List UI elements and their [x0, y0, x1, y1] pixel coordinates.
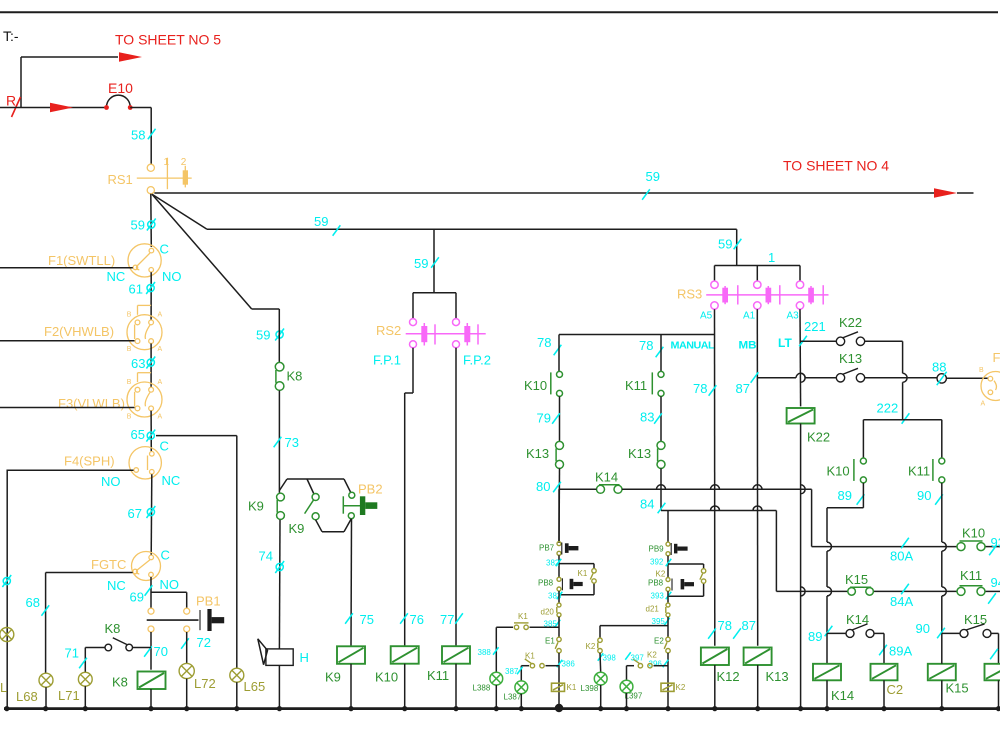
lamp L68 label: [16, 689, 38, 704]
svg-text:73: 73: [285, 435, 299, 450]
svg-text:K13: K13: [526, 446, 549, 461]
wire K14 to bus: [826, 680, 828, 708]
svg-text:F3(VLWLB): F3(VLWLB): [58, 396, 125, 411]
wire K8 branch upper: [278, 309, 280, 362]
svg-text:K22: K22: [839, 315, 862, 330]
svg-text:K1: K1: [525, 652, 535, 661]
RS1 pin 2: [181, 157, 187, 168]
net F.P.1 label: [373, 353, 401, 368]
contact K22 label: [839, 315, 862, 330]
wire K13 contact line: [758, 373, 938, 378]
wire K11 col upper: [660, 335, 662, 372]
svg-text:63: 63: [131, 356, 145, 371]
svg-text:K8: K8: [112, 675, 128, 690]
lamp L71 label: [58, 688, 80, 703]
wire 84A drop: [775, 511, 777, 592]
svg-text:K12: K12: [717, 669, 740, 684]
wire horn to bus: [278, 665, 280, 708]
svg-text:K2: K2: [656, 570, 666, 579]
wire 59 bus to sheet 4: [154, 188, 973, 198]
switch F1: [128, 244, 161, 277]
svg-text:F2(VHWLB): F2(VHWLB): [44, 324, 114, 339]
svg-text:80A: 80A: [890, 549, 913, 564]
wire 386 branch: [521, 666, 559, 681]
wire number 70: [144, 644, 168, 659]
svg-text:H: H: [300, 650, 309, 665]
lamp L65: [230, 668, 244, 682]
wire FGTC NC branch: [46, 573, 133, 674]
svg-text:L72: L72: [194, 676, 216, 691]
relay coil K16: [985, 664, 1000, 681]
wire 78 rail: [559, 334, 715, 336]
svg-text:87: 87: [736, 381, 750, 396]
lamp L397: [620, 680, 633, 693]
wire number 68: [26, 595, 50, 616]
svg-text:K10: K10: [962, 526, 985, 541]
pushbutton PB7: [557, 542, 578, 556]
K22 riser hops: [801, 485, 806, 596]
svg-text:2: 2: [181, 157, 187, 168]
wire number 386: [557, 660, 576, 669]
wire number 392: [650, 558, 671, 567]
contact K13: [556, 441, 564, 468]
wire 88 to F: [946, 377, 988, 379]
svg-text:C: C: [160, 439, 169, 454]
svg-text:69: 69: [130, 590, 144, 605]
wire number 89A: [879, 644, 912, 659]
switch F4: [129, 447, 161, 479]
wire 222 right drop: [941, 420, 943, 458]
pushbutton PB2: [343, 492, 377, 519]
svg-text:L397: L397: [625, 692, 643, 701]
svg-text:RS2: RS2: [376, 323, 401, 338]
wire LT riser: [800, 309, 805, 406]
wire number 398: [598, 653, 617, 662]
svg-text:59: 59: [414, 256, 428, 271]
svg-text:84A: 84A: [890, 594, 913, 609]
svg-text:90: 90: [917, 488, 931, 503]
wire number 94: [988, 575, 1000, 604]
wire 80A feed drop: [811, 489, 813, 546]
svg-text:L: L: [0, 680, 7, 695]
svg-text:94: 94: [991, 575, 1000, 590]
wire PB9 to branch: [667, 556, 669, 578]
contact K2 396 label: [647, 651, 657, 660]
svg-text:PB1: PB1: [196, 594, 221, 609]
wire 59 rail: [207, 228, 737, 230]
svg-text:76: 76: [410, 612, 424, 627]
wire K8aux to L71: [85, 648, 105, 673]
horn H label: [300, 650, 309, 665]
wire PB1 lamp branch: [151, 592, 187, 608]
wire FP1 drop: [405, 348, 413, 646]
svg-text:NO: NO: [160, 577, 180, 592]
wire FP2 drop: [455, 348, 457, 646]
wire PB7 to branch: [558, 555, 560, 577]
net F.P.2 label: [463, 353, 491, 368]
wire K10 coil to bus: [404, 664, 406, 709]
wire 59 drop to RS2: [433, 229, 435, 292]
lamp L72 label: [194, 676, 216, 691]
relay coil K13: [744, 648, 772, 666]
wire L398 to bus: [600, 685, 602, 709]
wire F3 B stub: [0, 407, 135, 409]
svg-text:PB2: PB2: [358, 482, 383, 497]
wire number 61: [129, 282, 156, 297]
pushbutton PB7 label: [539, 544, 555, 553]
pushbutton PB8b label: [648, 579, 664, 588]
wire L68 to bus: [45, 687, 47, 708]
svg-text:L65: L65: [244, 679, 266, 694]
relay coil K9: [337, 646, 365, 664]
contact K1 bypass label: [578, 569, 588, 578]
svg-text:88: 88: [932, 360, 946, 375]
svg-text:K1: K1: [567, 683, 577, 692]
F4 terminal NC label: [162, 473, 181, 488]
contact K8 label: [287, 369, 303, 384]
relay coil K1: [552, 683, 565, 691]
relay coil K13 label: [766, 669, 789, 684]
wire PB8 down: [558, 591, 560, 603]
svg-text:70: 70: [154, 644, 168, 659]
wire K1 bypass: [559, 564, 594, 595]
contact K15 bottom: [960, 624, 991, 638]
wire number 71: [65, 646, 87, 669]
wire 59 drop to RS3: [736, 229, 738, 265]
wire K11 coil to bus: [455, 664, 457, 709]
svg-text:K11: K11: [960, 568, 982, 583]
wire K10 col upper: [558, 335, 560, 372]
wire K11 col lower: [660, 468, 662, 510]
svg-text:MANUAL: MANUAL: [671, 340, 716, 352]
wire K10 col lower: [558, 468, 561, 543]
contact K10 NC right label: [827, 464, 850, 479]
contact K2 bypass label: [656, 570, 666, 579]
svg-text:89: 89: [808, 629, 822, 644]
relay coil K11 label: [427, 668, 449, 683]
relay coil K15: [928, 664, 956, 681]
F2 pin A top: [158, 312, 163, 319]
contact K13 LT label: [839, 351, 862, 366]
switch FGTC: [132, 552, 161, 581]
F2 pin A bottom: [158, 346, 163, 353]
wire L397 to bus: [626, 693, 628, 709]
lamp L68: [39, 673, 53, 687]
switch F2(VHWLB) label: [44, 324, 114, 339]
wire K8 branch to horn: [278, 520, 281, 649]
pushbutton PB8: [557, 577, 583, 591]
wire number 76: [400, 612, 424, 627]
contact d21: [666, 603, 670, 617]
FGTC terminal NO label: [160, 577, 180, 592]
svg-text:71: 71: [65, 646, 79, 661]
svg-text:A: A: [158, 346, 163, 353]
svg-text:K9: K9: [289, 521, 305, 536]
switch RS3 label: [677, 287, 702, 302]
svg-text:388: 388: [478, 648, 492, 657]
svg-text:74: 74: [259, 549, 273, 564]
wire number 84A: [890, 584, 913, 609]
svg-text:L398: L398: [581, 684, 599, 693]
switch F1(SWTLL) label: [48, 253, 115, 268]
F1 terminal NC label: [107, 269, 126, 284]
wire C2 to bus: [883, 680, 885, 708]
wire number 58: [131, 128, 156, 143]
lamp L72: [179, 663, 194, 678]
contact K8 aux label: [105, 621, 121, 636]
F3 pin A bottom: [158, 413, 163, 420]
wire K14 rail: [559, 485, 812, 490]
net MB label: [739, 340, 757, 352]
wire number 59 mid: [642, 169, 660, 200]
wire number 65: [131, 427, 156, 442]
wire number 395: [652, 617, 670, 626]
wire K22 to K13 drop: [903, 341, 908, 419]
contact K11 NC right label: [908, 464, 930, 479]
relay coil K14: [813, 664, 841, 681]
relay coil K2: [661, 683, 674, 691]
wire d20 down: [558, 617, 560, 637]
wire number 388: [478, 647, 499, 657]
svg-text:B: B: [127, 379, 132, 386]
wire K10 col mid: [559, 396, 561, 441]
svg-text:K10: K10: [827, 464, 850, 479]
contact K2 395 label: [586, 642, 596, 651]
contact K14 label: [595, 470, 618, 485]
wire F2 A down: [150, 344, 152, 388]
relay coil K8: [138, 672, 166, 690]
wire K15 bottom line: [942, 632, 999, 634]
net LT label: [778, 336, 792, 350]
lamp L387: [515, 681, 528, 694]
wire to sheet 5 arrow: [21, 52, 142, 62]
lamp L397 label: [625, 692, 643, 701]
svg-text:LT: LT: [778, 336, 792, 350]
F pin B label: [979, 367, 984, 374]
wire K12 to bus: [714, 665, 716, 709]
switch F right: [981, 372, 1000, 401]
svg-text:221: 221: [804, 319, 826, 334]
contact K15 84A: [848, 587, 874, 595]
wire 222 left drop: [862, 420, 864, 458]
wire number 87: [736, 372, 759, 396]
svg-text:84: 84: [640, 497, 654, 512]
svg-text:K22: K22: [807, 430, 830, 445]
svg-text:A: A: [158, 413, 163, 420]
switch RS2: [406, 319, 486, 348]
svg-text:67: 67: [128, 506, 142, 521]
F1 terminal C label: [160, 242, 169, 257]
contact K14: [597, 485, 623, 494]
wire number 385: [544, 620, 561, 629]
contact K9: [277, 493, 285, 519]
contact d20 label: [541, 608, 555, 617]
contact K11 NC: [652, 371, 664, 396]
wire 222 rail: [863, 419, 941, 421]
wire RS2 top tee: [413, 293, 456, 319]
wire number 79: [537, 411, 560, 426]
svg-text:59: 59: [314, 214, 328, 229]
contact K2 395: [598, 638, 602, 653]
left lamp label fragment: [0, 680, 7, 695]
wire number 397: [625, 652, 644, 662]
contact K11 NC label: [625, 378, 647, 393]
contact K10 NC right: [854, 458, 867, 483]
wire L72 to bus: [186, 679, 188, 709]
svg-text:386: 386: [562, 660, 576, 669]
wire K13 to bus: [757, 665, 759, 709]
node R label: [6, 93, 16, 109]
svg-text:B: B: [979, 367, 984, 374]
relay coil K10: [391, 646, 419, 664]
wire K16 drop: [990, 633, 998, 663]
svg-text:A: A: [158, 379, 163, 386]
F4 terminal NO label: [101, 474, 121, 489]
RS3 pin A5 label: [700, 311, 713, 322]
svg-text:78: 78: [639, 338, 653, 353]
svg-text:E1: E1: [545, 637, 555, 646]
svg-text:NC: NC: [107, 269, 126, 284]
pushbutton PB1 label: [196, 594, 221, 609]
svg-text:398: 398: [603, 654, 617, 663]
wire K8 branch mid: [278, 391, 280, 493]
relay coil K14 label: [831, 688, 854, 703]
wire number 396: [649, 660, 669, 669]
wire RS1 diag to 59 rail: [152, 194, 207, 229]
wire L65 to bus: [236, 682, 238, 708]
svg-text:61: 61: [129, 282, 143, 297]
contact K9 second label: [289, 521, 305, 536]
wire number 222: [877, 401, 910, 424]
svg-text:PB8: PB8: [648, 579, 664, 588]
pushbutton PB9 label: [649, 545, 665, 554]
svg-text:K9: K9: [248, 499, 264, 514]
svg-text:A5: A5: [700, 311, 713, 322]
F2 pin B bottom: [127, 346, 132, 353]
contact K10 NC: [551, 371, 563, 396]
svg-text:PB7: PB7: [539, 544, 555, 553]
svg-text:L71: L71: [58, 688, 80, 703]
wire number 83: [640, 410, 662, 425]
svg-text:65: 65: [131, 427, 145, 442]
svg-text:F.P.2: F.P.2: [463, 353, 491, 368]
wire number 59 K8 branch: [256, 328, 284, 343]
svg-text:K11: K11: [427, 668, 449, 683]
svg-text:77: 77: [440, 612, 454, 627]
wire number 77: [440, 612, 463, 627]
wire number 59 below RS1: [131, 218, 156, 233]
switch F right label: [993, 350, 1000, 365]
label TO SHEET NO 5: [115, 32, 221, 48]
wire K15 coil drop: [941, 633, 943, 708]
svg-text:K10: K10: [375, 670, 398, 685]
relay coil K2 label: [676, 683, 686, 692]
wire number 393: [651, 592, 672, 601]
contact K13 right label: [628, 446, 651, 461]
wire number 74: [259, 549, 285, 574]
left edge wire marker: [2, 575, 11, 587]
svg-text:PB8: PB8: [538, 579, 554, 588]
pushbutton PB2 label: [358, 482, 383, 497]
svg-text:K10: K10: [524, 378, 547, 393]
svg-text:L388: L388: [473, 684, 491, 693]
svg-text:A3: A3: [787, 311, 800, 322]
wire L387 to bus: [520, 694, 522, 709]
contact K8: [275, 362, 284, 390]
svg-text:d20: d20: [541, 608, 555, 617]
wire 80A rail: [812, 546, 1000, 548]
switch F4(SPH) label: [64, 454, 115, 469]
F3 pin A top: [158, 379, 163, 386]
svg-text:80: 80: [536, 479, 550, 494]
svg-text:K14: K14: [831, 688, 854, 703]
svg-text:78: 78: [718, 618, 732, 633]
wire F4 left riser: [6, 470, 8, 709]
wire F1 NO down: [150, 272, 152, 320]
switch F3(VLWLB) label: [58, 396, 125, 411]
wire number 73: [274, 435, 299, 450]
wire 385 branch: [496, 627, 559, 672]
relay coil K8 label: [112, 675, 128, 690]
bus junction dots: [4, 704, 1000, 712]
wire number 221: [799, 319, 826, 346]
contact K13 right: [657, 441, 665, 468]
wire number 78 K12: [708, 618, 732, 639]
wire number 63: [131, 356, 155, 371]
svg-text:392: 392: [650, 558, 664, 567]
relay coil K12: [701, 648, 729, 666]
wire number 89 bottom: [808, 626, 832, 644]
svg-text:A: A: [981, 401, 986, 408]
svg-text:78: 78: [537, 335, 551, 350]
svg-text:59: 59: [646, 169, 660, 184]
wire MB riser: [756, 309, 758, 646]
wire K2 module top: [667, 511, 669, 543]
wire d21 down: [667, 617, 669, 637]
wire number 382: [546, 559, 561, 568]
lamp L388 label: [473, 684, 491, 693]
svg-text:NC: NC: [162, 473, 181, 488]
svg-text:222: 222: [877, 401, 899, 416]
contact d21 label: [646, 605, 660, 614]
svg-text:59: 59: [718, 237, 732, 252]
pushbutton PB9: [666, 542, 688, 556]
wire K14 bottom line: [827, 632, 884, 634]
wire number 80A: [890, 538, 913, 564]
svg-text:1: 1: [768, 250, 775, 265]
wire number 90 bottom: [916, 621, 945, 638]
svg-text:K11: K11: [625, 378, 647, 393]
wire number 78 manual: [693, 381, 716, 396]
svg-text:72: 72: [197, 635, 211, 650]
contact E2: [664, 637, 670, 653]
wire number 69: [130, 585, 153, 604]
lamp L398 label: [581, 684, 599, 693]
contact d20: [557, 603, 561, 617]
svg-text:393: 393: [651, 592, 665, 601]
wire FGTC NO down: [150, 577, 152, 608]
relay coil C2 label: [887, 682, 904, 697]
contact K22: [836, 332, 864, 346]
svg-text:FGTC: FGTC: [91, 557, 126, 572]
RS3 pin A3 label: [787, 311, 800, 322]
svg-text:K1: K1: [518, 612, 528, 621]
fuse E10: [104, 95, 132, 110]
wire fuse to corner: [130, 108, 151, 165]
svg-text:RS3: RS3: [677, 287, 702, 302]
svg-text:387: 387: [505, 667, 519, 676]
contact K10 aux: [957, 541, 985, 551]
